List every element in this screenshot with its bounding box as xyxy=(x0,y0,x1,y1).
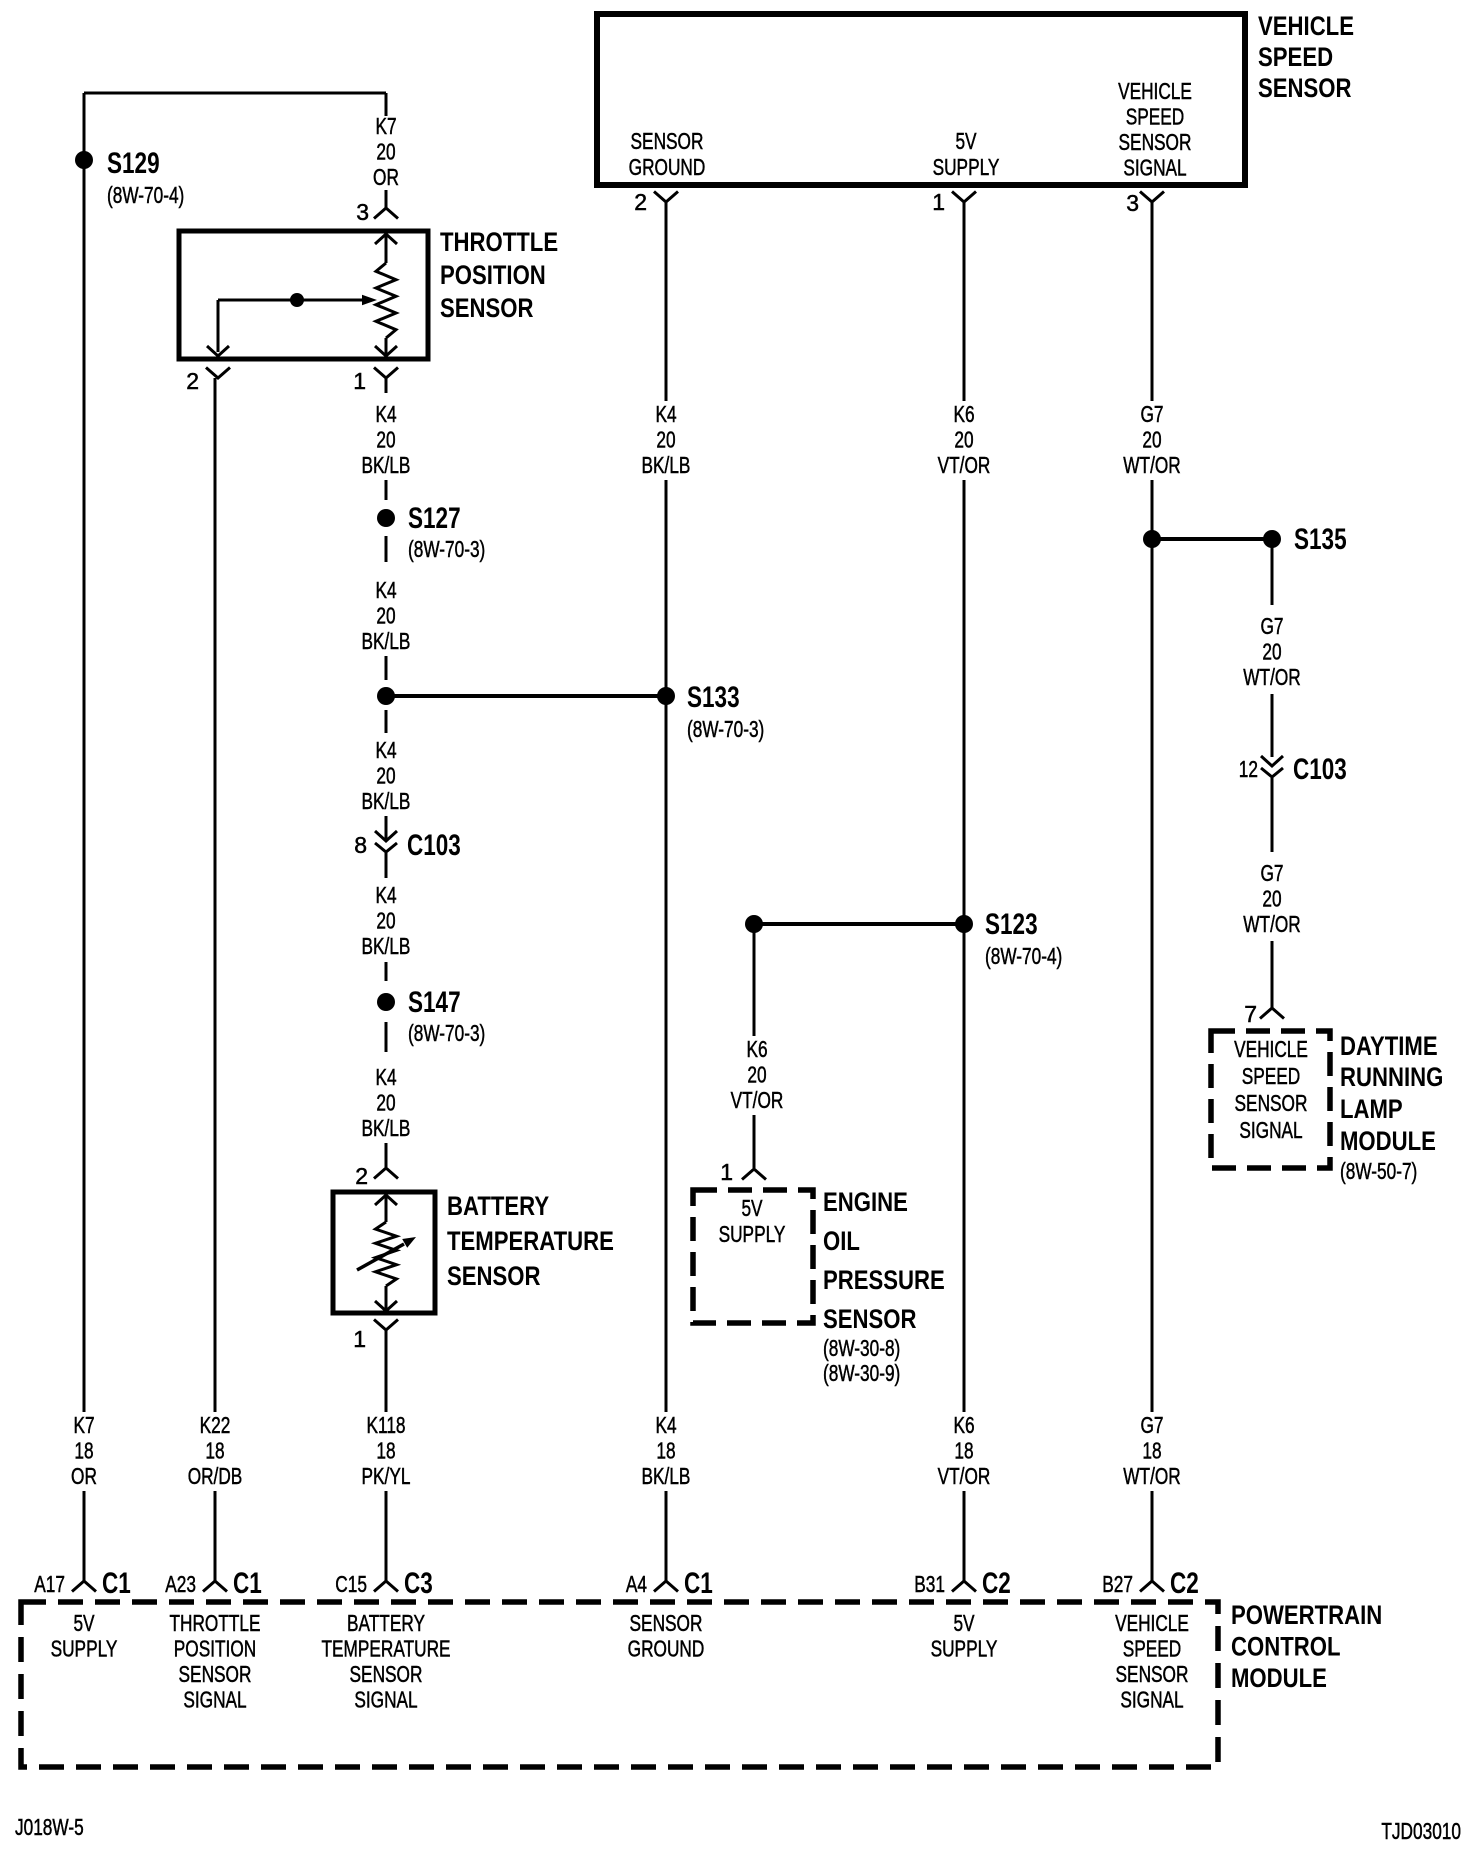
svg-text:B31: B31 xyxy=(914,1571,945,1597)
svg-text:20: 20 xyxy=(376,139,395,165)
svg-text:TEMPERATURE: TEMPERATURE xyxy=(321,1636,450,1662)
svg-text:K118: K118 xyxy=(367,1412,406,1438)
svg-text:K4: K4 xyxy=(375,577,396,603)
svg-text:C1: C1 xyxy=(102,1567,131,1600)
svg-text:THROTTLE: THROTTLE xyxy=(170,1610,261,1636)
svg-text:BK/LB: BK/LB xyxy=(642,452,691,478)
svg-text:SUPPLY: SUPPLY xyxy=(933,154,1000,180)
svg-text:OR: OR xyxy=(373,164,399,190)
svg-text:TJD03010: TJD03010 xyxy=(1381,1818,1461,1844)
svg-text:20: 20 xyxy=(376,427,395,453)
svg-text:C1: C1 xyxy=(233,1567,262,1600)
svg-text:SENSOR: SENSOR xyxy=(1116,1661,1189,1687)
svg-text:SENSOR: SENSOR xyxy=(630,1610,703,1636)
svg-text:THROTTLE: THROTTLE xyxy=(440,227,558,257)
svg-text:S135: S135 xyxy=(1294,523,1347,556)
svg-text:K6: K6 xyxy=(746,1036,767,1062)
svg-text:K4: K4 xyxy=(375,737,396,763)
svg-text:SENSOR: SENSOR xyxy=(823,1304,917,1334)
svg-text:K7: K7 xyxy=(375,113,396,139)
svg-text:18: 18 xyxy=(74,1438,93,1464)
svg-text:2: 2 xyxy=(186,368,199,394)
svg-text:G7: G7 xyxy=(1261,860,1284,886)
svg-text:WT/OR: WT/OR xyxy=(1243,911,1301,937)
svg-text:VT/OR: VT/OR xyxy=(731,1087,784,1113)
svg-text:2: 2 xyxy=(355,1163,368,1189)
svg-text:K4: K4 xyxy=(375,1064,396,1090)
svg-text:(8W-70-4): (8W-70-4) xyxy=(107,182,184,208)
svg-text:B27: B27 xyxy=(1102,1571,1133,1597)
svg-text:C103: C103 xyxy=(407,829,461,862)
svg-text:C2: C2 xyxy=(982,1567,1011,1600)
svg-text:GROUND: GROUND xyxy=(628,1636,705,1662)
svg-text:20: 20 xyxy=(1262,639,1281,665)
svg-text:7: 7 xyxy=(1244,1001,1257,1027)
svg-text:BK/LB: BK/LB xyxy=(362,788,411,814)
svg-text:VEHICLE: VEHICLE xyxy=(1118,78,1192,104)
svg-text:20: 20 xyxy=(747,1062,766,1088)
svg-text:20: 20 xyxy=(376,908,395,934)
svg-text:VT/OR: VT/OR xyxy=(938,452,991,478)
svg-text:CONTROL: CONTROL xyxy=(1231,1632,1341,1662)
svg-text:SENSOR: SENSOR xyxy=(350,1661,423,1687)
svg-text:8: 8 xyxy=(354,832,367,858)
svg-text:C103: C103 xyxy=(1293,753,1347,786)
svg-text:12: 12 xyxy=(1239,756,1258,782)
svg-text:C15: C15 xyxy=(335,1571,367,1597)
svg-text:18: 18 xyxy=(205,1438,224,1464)
svg-text:C1: C1 xyxy=(684,1567,713,1600)
svg-text:20: 20 xyxy=(376,763,395,789)
svg-text:K4: K4 xyxy=(375,401,396,427)
svg-text:18: 18 xyxy=(656,1438,675,1464)
svg-text:OR/DB: OR/DB xyxy=(188,1463,243,1489)
svg-text:SENSOR: SENSOR xyxy=(1258,73,1352,103)
svg-text:18: 18 xyxy=(954,1438,973,1464)
svg-text:(8W-70-3): (8W-70-3) xyxy=(408,1020,485,1046)
svg-text:POWERTRAIN: POWERTRAIN xyxy=(1231,1600,1382,1630)
svg-text:MODULE: MODULE xyxy=(1231,1663,1327,1693)
svg-text:MODULE: MODULE xyxy=(1340,1126,1436,1156)
svg-text:BK/LB: BK/LB xyxy=(362,1115,411,1141)
svg-text:VEHICLE: VEHICLE xyxy=(1115,1610,1189,1636)
svg-text:PRESSURE: PRESSURE xyxy=(823,1265,945,1295)
svg-text:SIGNAL: SIGNAL xyxy=(354,1687,417,1713)
svg-text:1: 1 xyxy=(932,189,945,215)
svg-text:SENSOR: SENSOR xyxy=(1119,129,1192,155)
svg-text:VEHICLE: VEHICLE xyxy=(1234,1036,1308,1062)
svg-text:(8W-70-3): (8W-70-3) xyxy=(687,716,764,742)
svg-text:20: 20 xyxy=(376,603,395,629)
svg-text:OIL: OIL xyxy=(823,1226,860,1256)
svg-text:VT/OR: VT/OR xyxy=(938,1463,991,1489)
svg-text:C2: C2 xyxy=(1170,1567,1199,1600)
svg-text:1: 1 xyxy=(720,1159,733,1185)
svg-text:S133: S133 xyxy=(687,681,740,714)
svg-text:K4: K4 xyxy=(375,882,396,908)
svg-text:3: 3 xyxy=(356,199,369,225)
svg-text:(8W-30-9): (8W-30-9) xyxy=(823,1360,900,1386)
svg-text:5V: 5V xyxy=(73,1610,95,1636)
svg-text:5V: 5V xyxy=(953,1610,975,1636)
svg-text:G7: G7 xyxy=(1141,401,1164,427)
svg-text:PK/YL: PK/YL xyxy=(362,1463,411,1489)
svg-text:20: 20 xyxy=(954,427,973,453)
svg-text:K4: K4 xyxy=(655,1412,676,1438)
svg-text:G7: G7 xyxy=(1141,1412,1164,1438)
svg-text:A23: A23 xyxy=(165,1571,196,1597)
svg-text:20: 20 xyxy=(376,1090,395,1116)
svg-text:SUPPLY: SUPPLY xyxy=(719,1221,786,1247)
svg-text:SIGNAL: SIGNAL xyxy=(1120,1687,1183,1713)
svg-text:(8W-50-7): (8W-50-7) xyxy=(1340,1158,1417,1184)
svg-text:1: 1 xyxy=(353,1326,366,1352)
svg-text:SENSOR: SENSOR xyxy=(1235,1090,1308,1116)
svg-text:SENSOR: SENSOR xyxy=(447,1261,541,1291)
svg-text:G7: G7 xyxy=(1261,613,1284,639)
svg-text:A4: A4 xyxy=(626,1571,647,1597)
svg-text:ENGINE: ENGINE xyxy=(823,1187,908,1217)
svg-text:WT/OR: WT/OR xyxy=(1123,1463,1181,1489)
svg-text:SPEED: SPEED xyxy=(1242,1063,1301,1089)
svg-text:SIGNAL: SIGNAL xyxy=(183,1687,246,1713)
svg-text:20: 20 xyxy=(1142,427,1161,453)
svg-text:20: 20 xyxy=(1262,886,1281,912)
svg-text:SPEED: SPEED xyxy=(1126,104,1185,130)
svg-text:BK/LB: BK/LB xyxy=(362,628,411,654)
svg-text:SUPPLY: SUPPLY xyxy=(931,1636,998,1662)
svg-text:K6: K6 xyxy=(953,401,974,427)
svg-text:J018W-5: J018W-5 xyxy=(15,1814,84,1840)
svg-text:BK/LB: BK/LB xyxy=(362,933,411,959)
svg-text:C3: C3 xyxy=(404,1567,433,1600)
svg-text:K6: K6 xyxy=(953,1412,974,1438)
svg-text:SIGNAL: SIGNAL xyxy=(1123,155,1186,181)
svg-text:(8W-70-4): (8W-70-4) xyxy=(985,943,1062,969)
svg-text:(8W-30-8): (8W-30-8) xyxy=(823,1335,900,1361)
svg-text:BATTERY: BATTERY xyxy=(447,1191,549,1221)
svg-text:VEHICLE: VEHICLE xyxy=(1258,11,1354,41)
svg-text:POSITION: POSITION xyxy=(440,260,546,290)
svg-text:3: 3 xyxy=(1126,190,1139,216)
svg-text:BK/LB: BK/LB xyxy=(362,452,411,478)
svg-text:SPEED: SPEED xyxy=(1123,1636,1182,1662)
svg-text:WT/OR: WT/OR xyxy=(1123,452,1181,478)
svg-text:S127: S127 xyxy=(408,502,461,535)
svg-text:BATTERY: BATTERY xyxy=(347,1610,425,1636)
svg-text:SIGNAL: SIGNAL xyxy=(1239,1117,1302,1143)
svg-text:TEMPERATURE: TEMPERATURE xyxy=(447,1226,614,1256)
svg-text:18: 18 xyxy=(1142,1438,1161,1464)
svg-text:LAMP: LAMP xyxy=(1340,1094,1403,1124)
svg-text:SENSOR: SENSOR xyxy=(179,1661,252,1687)
svg-text:OR: OR xyxy=(71,1463,97,1489)
svg-text:SPEED: SPEED xyxy=(1258,42,1333,72)
svg-text:GROUND: GROUND xyxy=(629,154,706,180)
svg-text:S129: S129 xyxy=(107,147,160,180)
svg-text:RUNNING: RUNNING xyxy=(1340,1062,1443,1092)
svg-text:K22: K22 xyxy=(200,1412,231,1438)
svg-text:(8W-70-3): (8W-70-3) xyxy=(408,536,485,562)
svg-text:DAYTIME: DAYTIME xyxy=(1340,1031,1438,1061)
svg-text:K7: K7 xyxy=(73,1412,94,1438)
svg-text:SENSOR: SENSOR xyxy=(440,293,534,323)
svg-text:A17: A17 xyxy=(34,1571,65,1597)
svg-text:2: 2 xyxy=(634,189,647,215)
svg-text:K4: K4 xyxy=(655,401,676,427)
svg-text:20: 20 xyxy=(656,427,675,453)
svg-text:SUPPLY: SUPPLY xyxy=(51,1636,118,1662)
svg-text:5V: 5V xyxy=(955,128,977,154)
svg-text:18: 18 xyxy=(376,1438,395,1464)
svg-text:1: 1 xyxy=(353,368,366,394)
svg-text:SENSOR: SENSOR xyxy=(631,128,704,154)
svg-text:S123: S123 xyxy=(985,908,1038,941)
svg-text:BK/LB: BK/LB xyxy=(642,1463,691,1489)
svg-text:S147: S147 xyxy=(408,986,461,1019)
svg-text:5V: 5V xyxy=(741,1195,763,1221)
svg-text:WT/OR: WT/OR xyxy=(1243,664,1301,690)
svg-text:POSITION: POSITION xyxy=(174,1636,256,1662)
